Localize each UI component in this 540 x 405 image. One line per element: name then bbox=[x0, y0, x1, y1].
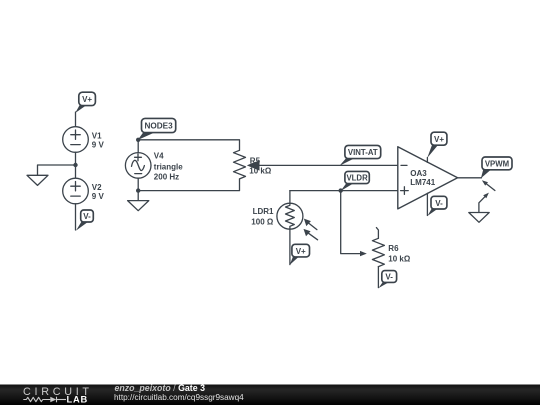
ground (left) bbox=[27, 175, 48, 185]
op-amp bottom power pin bbox=[426, 193, 428, 215]
wire top rail NODE3 to R5 bbox=[138, 140, 239, 151]
svg-text:enzo_peixoto / Gate 3: enzo_peixoto / Gate 3 bbox=[115, 383, 206, 393]
svg-text:http://circuitlab.com/cq9ssgr9: http://circuitlab.com/cq9ssgr9sawq4 bbox=[114, 393, 244, 402]
voltage source V1 bbox=[63, 127, 105, 153]
flag V+ (top of V1) bbox=[75, 92, 95, 113]
light arrow 2 into LDR1 bbox=[304, 229, 318, 240]
flag V- (op-amp supply) bbox=[428, 196, 447, 216]
svg-text:LM741: LM741 bbox=[410, 178, 435, 187]
svg-text:V+: V+ bbox=[434, 135, 444, 144]
svg-text:VINT-AT: VINT-AT bbox=[348, 148, 378, 157]
wire LDR1 to V+ flag bbox=[289, 229, 291, 264]
svg-text:10 kΩ: 10 kΩ bbox=[388, 254, 411, 263]
svg-text:NODE3: NODE3 bbox=[144, 122, 173, 131]
svg-text:LAB: LAB bbox=[67, 394, 89, 404]
wire R5 wiper to op-amp minus input (net VINT-AT) bbox=[257, 164, 398, 166]
annotation arrow A (points to output node) bbox=[482, 180, 495, 190]
svg-text:R6: R6 bbox=[388, 244, 399, 253]
wire junction to ground bbox=[38, 165, 76, 175]
svg-text:10 kΩ: 10 kΩ bbox=[249, 167, 272, 176]
footer bar bbox=[0, 385, 540, 405]
node NODE3 dot bbox=[136, 138, 140, 142]
wire V2 to V- bbox=[75, 204, 77, 230]
ground (under V4) bbox=[128, 201, 149, 211]
wire bottom rail V4 to R5 bbox=[138, 179, 239, 191]
svg-text:V+: V+ bbox=[296, 247, 306, 256]
resistor R6 (potentiometer) bbox=[372, 228, 410, 267]
flag VLDR bbox=[341, 171, 370, 191]
flag VPWM bbox=[481, 157, 512, 178]
junction node at V4 bottom bbox=[136, 188, 140, 192]
wire R6 to V- flag bbox=[377, 267, 379, 288]
flag V- (under R6) bbox=[379, 271, 397, 288]
svg-text:V-: V- bbox=[385, 273, 393, 282]
ground (near output) bbox=[469, 213, 489, 223]
wire VLDR to LDR1 bbox=[289, 191, 291, 204]
svg-text:V-: V- bbox=[435, 199, 443, 208]
svg-text:LDR1: LDR1 bbox=[253, 207, 274, 216]
flag VINT-AT bbox=[340, 145, 381, 165]
wire VLDR down to R6 wiper bbox=[341, 191, 361, 254]
wire V4 to ground bbox=[137, 178, 139, 200]
wire V1 to V2 bbox=[75, 152, 77, 178]
svg-text:triangle: triangle bbox=[154, 162, 183, 171]
wire op-amp output bbox=[458, 177, 482, 179]
junction node between V1 and V2 bbox=[73, 163, 77, 167]
voltage source V2 bbox=[63, 178, 105, 204]
light arrow 1 into LDR1 bbox=[304, 219, 317, 230]
resistor R5 bbox=[234, 150, 272, 179]
svg-text:100 Ω: 100 Ω bbox=[251, 217, 274, 226]
wiper arrow into R6 bbox=[360, 251, 367, 256]
flag V- (bottom of V2) bbox=[76, 210, 93, 231]
wire NODE3 to V4 bbox=[137, 140, 139, 153]
svg-text:9 V: 9 V bbox=[92, 192, 105, 201]
svg-text:VLDR: VLDR bbox=[346, 174, 368, 183]
svg-text:V1: V1 bbox=[92, 132, 102, 141]
flag V+ (under LDR1) bbox=[290, 244, 310, 265]
svg-text:V2: V2 bbox=[92, 183, 102, 192]
wiper arrow into R5 bbox=[247, 160, 260, 170]
op-amp top power pin bbox=[426, 158, 428, 163]
junction node VLDR bbox=[339, 188, 343, 192]
flag V+ (op-amp supply) bbox=[427, 132, 447, 158]
svg-text:VPWM: VPWM bbox=[485, 160, 509, 169]
svg-text:V-: V- bbox=[83, 212, 91, 221]
photoresistor LDR1 bbox=[251, 203, 303, 229]
annotation arrow B (from ground) bbox=[479, 193, 489, 213]
op-amp OA3 LM741 bbox=[398, 147, 458, 209]
svg-text:9 V: 9 V bbox=[92, 141, 105, 150]
CircuitLab logo mark (zigzag + diode) bbox=[23, 397, 66, 403]
svg-text:V+: V+ bbox=[82, 95, 92, 104]
svg-text:V4: V4 bbox=[154, 152, 164, 161]
svg-text:200 Hz: 200 Hz bbox=[154, 173, 179, 182]
svg-text:OA3: OA3 bbox=[410, 169, 427, 178]
flag NODE3 bbox=[138, 118, 176, 140]
voltage source V4 (triangle 200 Hz) bbox=[125, 152, 183, 182]
wire VLDR net to op-amp plus input bbox=[290, 190, 398, 192]
wire V+ to V1 bbox=[75, 112, 77, 127]
